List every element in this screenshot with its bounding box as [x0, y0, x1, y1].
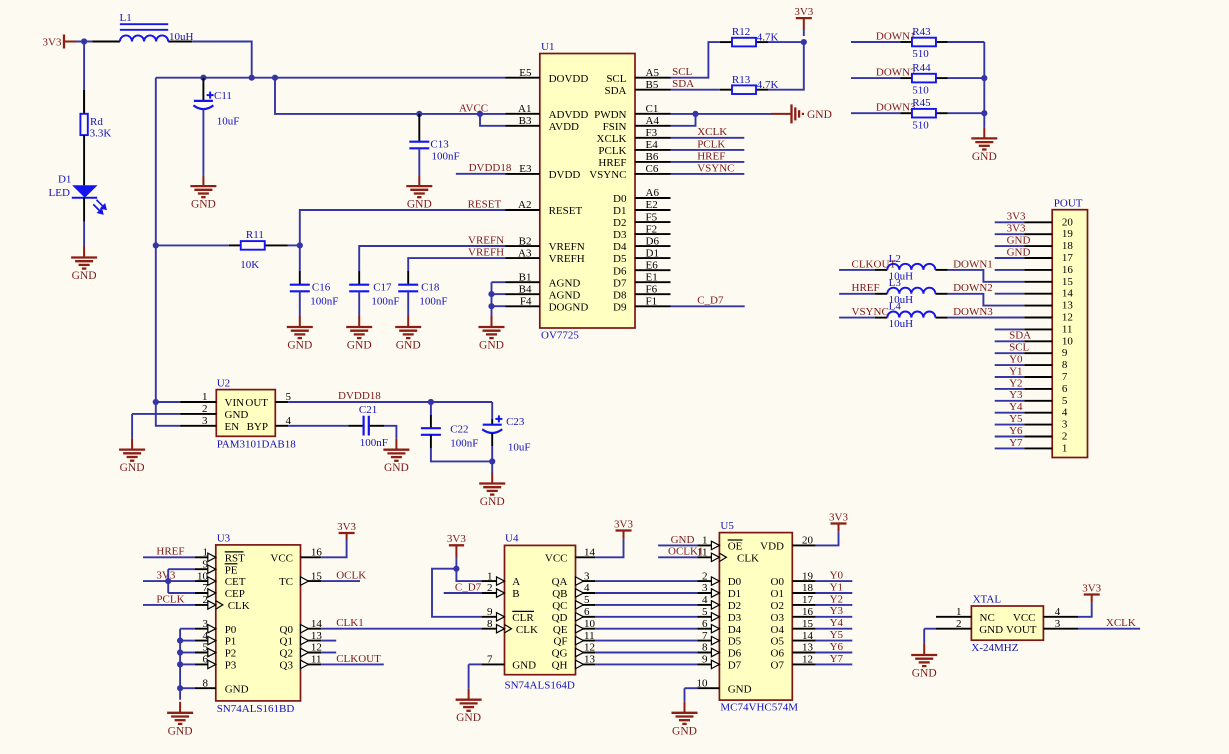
- wire RESET net: [300, 210, 506, 245]
- svg-text:18: 18: [802, 582, 814, 594]
- svg-text:SN74ALS164D: SN74ALS164D: [505, 679, 575, 691]
- wire HREF net: [839, 293, 875, 295]
- resistor R44: [912, 74, 936, 83]
- wire DVDD18 to U1: [456, 173, 506, 175]
- U2 pin 5: [275, 401, 288, 403]
- svg-text:12: 12: [311, 642, 322, 654]
- svg-text:100nF: 100nF: [419, 296, 447, 308]
- svg-text:10K: 10K: [240, 259, 259, 271]
- svg-text:18: 18: [1062, 240, 1074, 252]
- svg-text:Y7: Y7: [830, 653, 844, 665]
- POUT pin 17: [1024, 257, 1052, 259]
- svg-text:B6: B6: [646, 151, 659, 163]
- U4 pin 8: [482, 628, 505, 630]
- U1 pin C6: [635, 173, 671, 175]
- POUT pin 16: [1024, 269, 1052, 271]
- svg-text:3: 3: [702, 582, 708, 594]
- svg-text:4: 4: [1062, 407, 1068, 419]
- svg-text:19: 19: [1062, 228, 1074, 240]
- svg-text:GND: GND: [407, 199, 432, 211]
- svg-text:SN74ALS161BD: SN74ALS161BD: [217, 703, 295, 715]
- wire 3V3 to L1 and Rd: [76, 41, 92, 43]
- U2 pin 2: [180, 413, 216, 415]
- wire GND net to U5 OE: [658, 544, 697, 546]
- svg-text:CET: CET: [225, 576, 246, 588]
- svg-text:Y5: Y5: [830, 629, 844, 641]
- svg-text:2: 2: [203, 594, 209, 606]
- capacitor C18: [407, 271, 409, 285]
- power 3V3: [339, 533, 355, 540]
- U1 pin E3: [506, 173, 540, 175]
- wire HREF net: [671, 161, 745, 163]
- svg-text:GND: GND: [225, 683, 249, 695]
- wire POUT pin 5: [995, 400, 1024, 402]
- svg-text:VSYNC: VSYNC: [852, 306, 889, 318]
- wire C23 bottom to ground: [491, 433, 493, 446]
- svg-text:R45: R45: [912, 97, 931, 109]
- svg-text:C_D7: C_D7: [455, 581, 482, 593]
- POUT pin 1: [1024, 447, 1052, 449]
- wire DVDD18 output: [288, 401, 492, 403]
- svg-text:1: 1: [202, 391, 208, 403]
- svg-text:VOUT: VOUT: [1006, 624, 1037, 636]
- svg-text:ADVDD: ADVDD: [549, 109, 589, 121]
- svg-text:2: 2: [956, 618, 962, 630]
- svg-text:510: 510: [912, 119, 929, 131]
- U2 pin names: [225, 397, 269, 433]
- svg-text:1: 1: [203, 547, 209, 559]
- capacitor C13: [409, 142, 429, 149]
- POUT pin 4: [1024, 412, 1052, 414]
- svg-text:A6: A6: [646, 187, 660, 199]
- svg-text:RST: RST: [225, 552, 245, 564]
- wires U4 outputs to U5 inputs: [595, 581, 697, 664]
- wire Y5 net: [816, 640, 853, 642]
- U1 pin A5: [635, 77, 671, 79]
- svg-text:14: 14: [1062, 288, 1074, 300]
- wire top rail (DOVDD net): [156, 77, 506, 79]
- svg-text:B2: B2: [519, 235, 532, 247]
- svg-text:Y5: Y5: [1009, 413, 1023, 425]
- wire C_D7 to U4 B: [444, 592, 482, 594]
- svg-text:7: 7: [487, 654, 493, 666]
- svg-text:3V3: 3V3: [1007, 211, 1026, 223]
- junction: [177, 685, 183, 691]
- U3 pin names: [225, 552, 294, 695]
- svg-text:AVDD: AVDD: [549, 121, 579, 133]
- svg-text:EN: EN: [225, 421, 240, 433]
- U3 pin 2: [195, 604, 216, 606]
- wire R44 to ground rail: [948, 77, 985, 79]
- wire SDA net: [671, 89, 720, 91]
- svg-text:SDA: SDA: [604, 85, 626, 97]
- U5 pin 9: [697, 663, 719, 665]
- svg-text:9: 9: [1062, 347, 1068, 359]
- svg-text:GND: GND: [191, 199, 216, 211]
- ground: [71, 247, 97, 269]
- svg-text:VREFH: VREFH: [468, 247, 504, 259]
- U5 pin 3: [697, 592, 719, 594]
- svg-text:O0: O0: [771, 576, 785, 588]
- U3 pin 13: [301, 640, 322, 642]
- svg-text:Y6: Y6: [830, 641, 844, 653]
- capacitor C13 pin: [418, 114, 420, 142]
- junction: [801, 39, 807, 45]
- svg-text:P2: P2: [225, 648, 237, 660]
- svg-text:9: 9: [702, 654, 708, 666]
- svg-text:XCLK: XCLK: [597, 133, 627, 145]
- junction: [81, 38, 87, 44]
- POUT pin 15: [1024, 281, 1052, 283]
- U3 pin 14: [301, 628, 322, 630]
- wire XTAL GND to ground: [924, 628, 936, 630]
- svg-text:D4: D4: [613, 241, 627, 253]
- U1 pin B5: [635, 89, 671, 91]
- svg-text:SCL: SCL: [672, 66, 692, 78]
- svg-text:O3: O3: [771, 612, 785, 624]
- svg-text:C18: C18: [421, 282, 440, 294]
- svg-text:D1: D1: [58, 173, 71, 185]
- U4 pin 7: [482, 663, 505, 665]
- wire POUT pin 8: [995, 364, 1024, 366]
- svg-text:P0: P0: [225, 624, 237, 636]
- wire main left vertical: [156, 78, 180, 426]
- IC U5 MC74VHC574M: [719, 533, 792, 701]
- junction: [177, 661, 183, 667]
- svg-text:GND: GND: [671, 534, 695, 546]
- ground: [395, 316, 421, 338]
- svg-text:R11: R11: [246, 229, 264, 241]
- svg-text:F4: F4: [520, 296, 532, 308]
- POUT pin 18: [1024, 245, 1052, 247]
- svg-text:R13: R13: [732, 74, 751, 86]
- svg-text:6: 6: [584, 606, 590, 618]
- capacitor C11: [193, 92, 213, 110]
- svg-text:Q3: Q3: [280, 660, 294, 672]
- svg-text:C6: C6: [646, 163, 659, 175]
- svg-text:Y6: Y6: [1009, 425, 1023, 437]
- svg-text:510: 510: [912, 48, 929, 60]
- ground: [406, 175, 432, 197]
- U5 pin 4: [697, 604, 719, 606]
- svg-text:Y0: Y0: [830, 570, 844, 582]
- junction: [477, 111, 483, 117]
- power 3V3 (top-left): [64, 35, 76, 49]
- wire POUT pin 11: [995, 328, 1024, 330]
- wire AVCC branch: [275, 78, 506, 114]
- capacitor C17: [358, 271, 360, 285]
- svg-text:16: 16: [311, 547, 323, 559]
- svg-text:D6: D6: [646, 235, 660, 247]
- svg-text:AGND: AGND: [549, 289, 581, 301]
- wire U4 VCC to 3V3: [595, 541, 623, 557]
- svg-text:QH: QH: [552, 660, 568, 672]
- U5 pin 20: [792, 544, 815, 546]
- svg-text:U4: U4: [505, 533, 519, 545]
- svg-text:B1: B1: [519, 271, 532, 283]
- svg-text:Y4: Y4: [1009, 401, 1023, 413]
- svg-text:VCC: VCC: [1013, 612, 1036, 624]
- POUT pin 19: [1024, 233, 1052, 235]
- svg-text:OCLK: OCLK: [336, 570, 366, 582]
- junction: [249, 75, 255, 81]
- svg-text:E3: E3: [519, 163, 532, 175]
- inductor L3: [875, 293, 887, 295]
- svg-text:RESET: RESET: [549, 205, 583, 217]
- svg-text:D5: D5: [613, 253, 627, 265]
- svg-text:8: 8: [487, 618, 493, 630]
- wire POUT pin 1: [995, 447, 1024, 449]
- svg-text:10uH: 10uH: [169, 31, 194, 43]
- junction: [981, 110, 987, 116]
- svg-text:7: 7: [1062, 371, 1068, 383]
- svg-text:VIN: VIN: [225, 397, 245, 409]
- svg-text:E1: E1: [646, 271, 658, 283]
- svg-text:PE: PE: [225, 564, 238, 576]
- svg-text:CLKOUT: CLKOUT: [336, 653, 381, 665]
- wire U3 Q2 stub: [321, 652, 336, 654]
- svg-text:D1: D1: [613, 205, 626, 217]
- XTAL pin 2: [936, 628, 971, 630]
- U3 pin 16: [301, 556, 322, 558]
- POUT pin 12: [1024, 317, 1052, 319]
- svg-text:100nF: 100nF: [450, 437, 478, 449]
- svg-text:OCLK1: OCLK1: [668, 546, 703, 558]
- svg-text:C11: C11: [214, 90, 232, 102]
- U3 pin 9: [195, 568, 216, 570]
- svg-text:AVCC: AVCC: [459, 102, 488, 114]
- svg-text:17: 17: [802, 594, 814, 606]
- ground: [190, 175, 216, 197]
- svg-text:QB: QB: [552, 588, 567, 600]
- ground: [383, 439, 409, 461]
- svg-text:1: 1: [956, 606, 962, 618]
- svg-text:AGND: AGND: [549, 277, 581, 289]
- svg-text:10uF: 10uF: [508, 442, 531, 454]
- svg-text:GND: GND: [347, 340, 372, 352]
- wire DOWN3 to pin 12: [948, 317, 1024, 319]
- U4 pin 10: [576, 628, 596, 630]
- svg-text:GND: GND: [512, 660, 536, 672]
- wire R45 to ground rail: [948, 112, 985, 114]
- svg-text:QE: QE: [553, 624, 568, 636]
- junction: [489, 458, 495, 464]
- svg-text:R43: R43: [912, 26, 931, 38]
- POUT pin 13: [1024, 305, 1052, 307]
- svg-text:SDA: SDA: [1009, 330, 1031, 342]
- svg-text:XCLK: XCLK: [697, 126, 727, 138]
- svg-text:F6: F6: [646, 283, 658, 295]
- svg-text:CLR: CLR: [512, 612, 534, 624]
- wire POUT pin 16: [995, 269, 1024, 271]
- svg-text:CLK1: CLK1: [336, 617, 364, 629]
- svg-text:7: 7: [702, 630, 708, 642]
- U1 pin A4: [635, 125, 671, 127]
- svg-text:2: 2: [202, 403, 208, 415]
- svg-text:VSYNC: VSYNC: [589, 169, 626, 181]
- svg-text:A3: A3: [518, 247, 532, 259]
- resistor R43: [912, 38, 936, 47]
- ground: [911, 644, 937, 666]
- svg-text:QF: QF: [553, 636, 567, 648]
- U4 pin 3: [576, 580, 596, 582]
- svg-text:Rd: Rd: [90, 116, 103, 128]
- svg-text:NC: NC: [980, 612, 995, 624]
- svg-text:X-24MHZ: X-24MHZ: [971, 642, 1018, 654]
- svg-text:Q1: Q1: [280, 636, 293, 648]
- svg-text:P1: P1: [225, 636, 237, 648]
- svg-text:C23: C23: [506, 416, 525, 428]
- svg-text:O2: O2: [771, 600, 784, 612]
- resistor R13: [720, 89, 732, 91]
- svg-text:4: 4: [702, 594, 708, 606]
- wire POUT pin 2: [995, 436, 1024, 438]
- U5 pin 13: [792, 652, 815, 654]
- resistor R13: [732, 85, 756, 94]
- U1 pin B3: [506, 125, 540, 127]
- svg-text:Q2: Q2: [280, 648, 293, 660]
- U4 pin 13: [576, 663, 596, 665]
- svg-text:HREF: HREF: [852, 282, 880, 294]
- svg-text:HREF: HREF: [697, 150, 725, 162]
- svg-text:DOWN1: DOWN1: [876, 30, 916, 42]
- wire AGND net: [492, 281, 506, 283]
- junction: [297, 242, 303, 248]
- svg-text:VREFH: VREFH: [549, 253, 585, 265]
- ground (right-facing) at U1 PWDN: [771, 104, 803, 123]
- svg-text:5: 5: [584, 594, 590, 606]
- svg-text:4: 4: [584, 582, 590, 594]
- power 3V3: [796, 18, 812, 30]
- junction: [453, 566, 459, 572]
- svg-text:3V3: 3V3: [1007, 223, 1026, 235]
- wire CLKOUT net: [839, 269, 875, 271]
- wire C22 bottom: [430, 435, 432, 448]
- POUT pin 11: [1024, 328, 1052, 330]
- wire POUT pin 14: [995, 293, 1024, 295]
- svg-text:SCL: SCL: [606, 73, 626, 85]
- U1 pin C1: [635, 113, 671, 115]
- svg-text:C17: C17: [373, 282, 392, 294]
- capacitor C18: [398, 285, 418, 292]
- svg-text:A4: A4: [646, 115, 660, 127]
- svg-text:HREF: HREF: [156, 546, 184, 558]
- svg-text:FSIN: FSIN: [603, 121, 627, 133]
- ground: [346, 316, 372, 338]
- LED D1: [49, 173, 106, 213]
- capacitor C17: [349, 285, 369, 292]
- wire Y2 net: [816, 604, 853, 606]
- power 3V3: [616, 531, 632, 539]
- U5 pin 2: [697, 580, 719, 582]
- junction: [177, 638, 183, 644]
- svg-text:CLK: CLK: [516, 624, 538, 636]
- POUT pin 2: [1024, 436, 1052, 438]
- svg-text:20: 20: [802, 535, 814, 547]
- svg-text:F1: F1: [646, 296, 658, 308]
- svg-text:GND: GND: [384, 462, 409, 474]
- wire R43-R45 ground vertical: [983, 42, 985, 127]
- svg-text:8: 8: [203, 677, 209, 689]
- wire Y0 net: [816, 580, 853, 582]
- svg-text:11: 11: [584, 630, 595, 642]
- svg-text:100nF: 100nF: [371, 296, 399, 308]
- wire U3 Q1 stub: [321, 640, 336, 642]
- U5 pin 5: [697, 616, 719, 618]
- U3 pin 3: [195, 628, 216, 630]
- power 3V3: [1084, 595, 1100, 603]
- svg-text:DVDD18: DVDD18: [469, 162, 512, 174]
- svg-text:L3: L3: [889, 277, 902, 289]
- svg-text:GND: GND: [72, 270, 97, 282]
- wire C_D7 net at U1 D9: [671, 305, 745, 307]
- U1 pin E2: [635, 209, 671, 211]
- svg-text:8: 8: [702, 642, 708, 654]
- svg-text:VDD: VDD: [760, 541, 784, 553]
- svg-text:Y4: Y4: [830, 617, 844, 629]
- svg-text:CEP: CEP: [225, 588, 245, 600]
- U3 pin 15: [301, 580, 322, 582]
- svg-text:11: 11: [1062, 323, 1073, 335]
- svg-text:13: 13: [1062, 300, 1074, 312]
- POUT pin 10: [1024, 340, 1052, 342]
- U1 pin B4: [506, 293, 540, 295]
- svg-text:CLK: CLK: [737, 552, 759, 564]
- svg-text:6: 6: [1062, 383, 1068, 395]
- POUT pin 9: [1024, 352, 1052, 354]
- svg-text:C13: C13: [430, 139, 449, 151]
- U4 pin 14: [576, 556, 596, 558]
- U1 pin E4: [635, 149, 671, 151]
- wire C21 to ground: [384, 426, 396, 439]
- wire D1 to ground: [83, 198, 85, 222]
- svg-text:3V3: 3V3: [337, 521, 356, 533]
- U1 pin F4: [506, 305, 540, 307]
- ground: [479, 473, 505, 495]
- svg-text:11: 11: [311, 654, 322, 666]
- wire SCL net: [671, 42, 720, 78]
- svg-text:GND: GND: [456, 712, 481, 724]
- svg-text:13: 13: [584, 654, 596, 666]
- wire POUT pin 9: [995, 352, 1024, 354]
- wire POUT pin 4: [995, 412, 1024, 414]
- svg-text:13: 13: [311, 630, 323, 642]
- U5 pin names: [728, 541, 785, 696]
- svg-text:Y0: Y0: [1009, 354, 1023, 366]
- svg-text:Q0: Q0: [280, 624, 294, 636]
- capacitor C21: [349, 425, 364, 427]
- U1 pin F5: [635, 221, 671, 223]
- svg-text:C1: C1: [646, 103, 659, 115]
- U1 pin D1: [635, 257, 671, 259]
- svg-text:3V3: 3V3: [43, 36, 62, 48]
- svg-text:L2: L2: [889, 253, 901, 265]
- ground: [672, 702, 698, 724]
- svg-text:DOWN2: DOWN2: [953, 282, 993, 294]
- U1 pin F3: [635, 137, 671, 139]
- svg-text:D6: D6: [613, 265, 627, 277]
- XTAL pin 3: [1043, 628, 1078, 630]
- svg-text:CLK: CLK: [228, 600, 250, 612]
- svg-text:DOWN1: DOWN1: [953, 258, 993, 270]
- wire POUT pin 6: [995, 388, 1024, 390]
- wire C18 to ground: [407, 291, 409, 316]
- svg-text:VCC: VCC: [270, 552, 293, 564]
- wire DOWN2 to R44: [851, 77, 900, 79]
- IC U3 SN74ALS161BD: [216, 545, 301, 701]
- wire U2 VIN: [156, 401, 180, 403]
- POUT pin 3: [1024, 424, 1052, 426]
